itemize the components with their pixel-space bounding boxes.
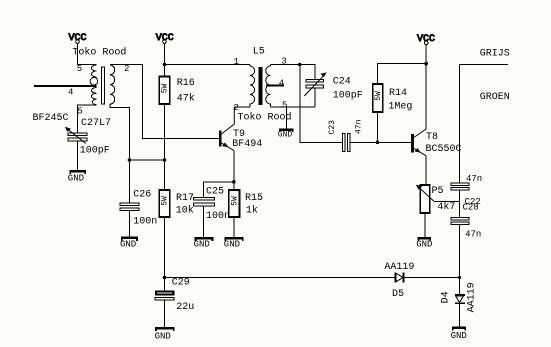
svg-text:Toko Rood: Toko Rood	[238, 112, 292, 124]
trimmer C24 arrow	[304, 72, 326, 96]
svg-text:GND: GND	[68, 174, 84, 184]
wire R15 to ground	[233, 217, 235, 237]
svg-text:100pF: 100pF	[80, 146, 110, 157]
junction at detector line	[458, 276, 461, 279]
junction at VCC/R14	[424, 62, 428, 66]
wire C26/L7 node to R16-R17 node	[130, 159, 165, 161]
wire C25 to ground	[202, 206, 204, 237]
svg-text:5W: 5W	[374, 91, 383, 101]
ground (below C25)	[194, 237, 214, 250]
svg-text:47k: 47k	[177, 92, 195, 104]
svg-text:D5: D5	[392, 289, 404, 300]
wire emitter node to R15	[233, 182, 235, 190]
svg-text:10k: 10k	[176, 205, 194, 217]
svg-text:R17: R17	[176, 193, 194, 204]
wire R17 to C29 junction	[164, 217, 166, 278]
transistor T8 emitter with arrow	[414, 148, 426, 185]
wire VCC to R14 and T8 collector	[378, 45, 427, 129]
transformer L5 right winding	[266, 65, 271, 107]
wire L5 pin5 to ground and C24 bottom	[271, 107, 316, 129]
svg-text:GND: GND	[155, 331, 171, 341]
svg-text:47n: 47n	[465, 230, 481, 240]
capacitor C28	[451, 218, 469, 225]
pin 4 tap of L5	[266, 78, 284, 88]
wire C22 to C28 with tap to P5 wiper	[459, 190, 461, 217]
transformer L7 left winding lower	[92, 88, 97, 105]
svg-text:GND: GND	[194, 240, 210, 250]
junction at C23 tap	[298, 63, 302, 67]
wire audio line C29 to D5	[165, 277, 395, 279]
transformer L7 tap circle	[90, 77, 98, 85]
svg-text:C25: C25	[206, 186, 224, 197]
svg-text:GRIJS: GRIJS	[480, 49, 510, 60]
transistor T8 collector	[414, 129, 426, 138]
transistor T9 base bar	[219, 131, 221, 147]
svg-text:C28: C28	[463, 202, 479, 212]
svg-text:5: 5	[77, 64, 82, 74]
junction at C29	[163, 276, 167, 280]
transformer L5 left winding	[250, 65, 255, 107]
wire R16 to R17	[164, 104, 166, 190]
resistor R15	[229, 190, 240, 217]
transformer L7 core	[102, 67, 105, 104]
transistor T9 emitter with arrow	[221, 143, 233, 182]
diode D5	[394, 273, 404, 283]
wire L7 pin 5 bottom to trimmer C27	[78, 105, 97, 133]
svg-text:5W: 5W	[161, 196, 170, 206]
svg-text:1Meg: 1Meg	[388, 102, 412, 113]
resistor R17	[159, 190, 170, 217]
svg-text:D4: D4	[441, 291, 452, 303]
svg-text:C27L7: C27L7	[81, 118, 111, 129]
capacitor C25	[194, 197, 215, 205]
ground (below C27)	[68, 170, 86, 184]
potentiometer P5 box	[420, 185, 429, 213]
wire L7 bottom right pin to C26	[110, 104, 130, 203]
transformer L5 core	[258, 67, 262, 105]
svg-text:C26: C26	[133, 190, 151, 201]
svg-text:2: 2	[124, 64, 129, 74]
svg-text:4: 4	[68, 87, 73, 97]
node VCC (middle supply)	[156, 33, 174, 44]
svg-text:BF245C: BF245C	[33, 113, 69, 124]
svg-text:AA119: AA119	[467, 282, 478, 312]
svg-text:GROEN: GROEN	[480, 92, 510, 103]
svg-text:22u: 22u	[176, 302, 194, 313]
junction at R14 bottom	[376, 141, 380, 145]
svg-text:1k: 1k	[246, 205, 258, 217]
svg-text:GND: GND	[451, 331, 467, 341]
svg-text:GND: GND	[120, 240, 136, 250]
svg-text:4: 4	[279, 78, 284, 88]
capacitor C26	[120, 203, 139, 211]
svg-text:100n: 100n	[133, 216, 157, 227]
wire GROEN line down to C22	[459, 65, 461, 183]
svg-text:2: 2	[233, 103, 238, 113]
svg-text:GND: GND	[278, 131, 293, 140]
svg-text:47n: 47n	[466, 174, 482, 184]
wire C23 tap down and to capacitor	[300, 65, 343, 143]
svg-text:Toko Rood: Toko Rood	[72, 47, 126, 59]
junction at C26 wire	[128, 158, 132, 162]
svg-text:P5: P5	[432, 186, 444, 197]
svg-text:L5: L5	[253, 47, 265, 58]
ground (below R15)	[224, 237, 244, 250]
transistor T9 collector	[221, 107, 234, 134]
wire L5 pin2 to T9 collector	[234, 106, 250, 108]
ground (below L5 pin 5)	[278, 129, 294, 140]
wire junction to C29	[164, 278, 166, 291]
svg-text:C23: C23	[328, 120, 337, 135]
ground (below C29)	[155, 327, 175, 341]
svg-text:BF494: BF494	[232, 139, 262, 150]
wire C28 down to detector line	[459, 225, 461, 295]
svg-text:5W: 5W	[231, 196, 240, 206]
svg-text:R16: R16	[177, 78, 195, 89]
svg-text:100n: 100n	[206, 211, 230, 222]
junction at VCC/R16/L5	[163, 63, 167, 67]
wire antenna input to tap pin 4	[34, 85, 97, 87]
svg-text:C29: C29	[172, 277, 190, 288]
svg-text:BC550C: BC550C	[426, 144, 462, 155]
wire R14 to base line	[377, 112, 379, 142]
capacitor C22	[451, 183, 469, 190]
ground (below C26)	[120, 237, 138, 250]
svg-text:VCC: VCC	[69, 33, 87, 44]
ground (below D4)	[451, 327, 467, 342]
svg-text:5W: 5W	[161, 84, 170, 94]
svg-text:GND: GND	[224, 240, 240, 250]
junction at R16-R17 wire	[163, 158, 167, 162]
wire D5 to green line	[404, 277, 459, 279]
svg-text:100pF: 100pF	[333, 90, 363, 101]
wire L7 pin2 to T9 base	[110, 65, 219, 139]
trimmer capacitor C27 plates	[68, 133, 87, 141]
diode D4	[455, 294, 465, 304]
wire VCC to transformer L7 pin 5	[78, 43, 97, 64]
svg-text:1: 1	[234, 57, 239, 67]
capacitor C23	[342, 134, 350, 152]
potentiometer P5 wiper arrow	[416, 185, 460, 202]
wire C27 to ground	[77, 141, 79, 170]
trimmer C27 arrow	[65, 127, 86, 144]
wire P5 to ground	[424, 213, 426, 237]
wire L5 pin3 to C24	[271, 65, 316, 80]
transformer L7 right winding	[110, 65, 115, 104]
resistor R14	[373, 84, 383, 112]
svg-text:C24: C24	[333, 77, 351, 88]
node VCC (right supply)	[417, 34, 435, 45]
capacitor C29 electrolytic	[155, 290, 175, 300]
node VCC (left supply)	[69, 33, 87, 44]
svg-text:4k7: 4k7	[437, 201, 455, 213]
transformer L7 left winding upper	[92, 65, 97, 77]
wire D4 to ground	[459, 304, 461, 327]
wire VCC to R16 and L5 pin 1	[165, 43, 250, 76]
svg-text:47n: 47n	[354, 119, 363, 134]
svg-text:GND: GND	[416, 239, 432, 249]
wire C23 to T8 base	[350, 141, 411, 143]
svg-text:5: 5	[77, 107, 82, 117]
junction at T9 emitter / R15 / C25	[232, 180, 236, 184]
ground (below P5)	[416, 237, 432, 249]
svg-text:T8: T8	[426, 132, 438, 143]
wire emitter node to C25	[203, 182, 234, 198]
svg-text:VCC: VCC	[156, 33, 174, 44]
svg-text:VCC: VCC	[417, 34, 435, 45]
wire C29 to ground	[164, 300, 166, 327]
wire C26 to ground	[129, 211, 131, 237]
trimmer capacitor C24 plates	[306, 79, 324, 107]
wire GRIJS output stub	[460, 64, 509, 66]
svg-text:R15: R15	[245, 193, 263, 204]
svg-text:AA119: AA119	[384, 262, 414, 273]
resistor R16	[159, 77, 170, 105]
svg-text:R14: R14	[389, 88, 407, 99]
transistor T8 base bar	[411, 134, 414, 153]
